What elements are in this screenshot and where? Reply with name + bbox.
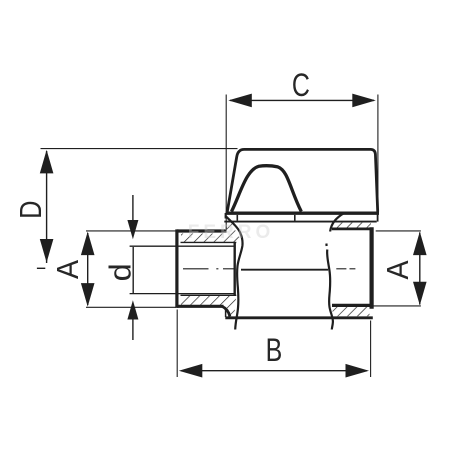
dimension B line [181,370,367,372]
male end left face [175,229,178,308]
dimension D extension line [41,148,238,150]
dimension A right line [419,233,421,305]
dimension C arrowheads [228,94,252,108]
left break wavy line [225,216,242,330]
female top hatch band [333,223,372,229]
stem band right edge [377,213,379,222]
dimension d bottom arrow [132,319,134,341]
svg-text:C: C [292,68,310,104]
centerline tick at D [37,267,45,269]
dimension D arrowheads [40,150,54,174]
left skirt curve [222,306,230,316]
svg-text:B: B [266,333,283,369]
body left shoulder hatch [181,223,242,244]
body left lower shoulder hatch [181,295,236,316]
body seam line [241,269,328,271]
svg-text:A: A [381,260,415,279]
female right face [370,227,374,308]
dimension B extension lines [176,310,178,378]
stem band divider left [236,215,238,221]
left skirt edge [225,310,227,318]
female bore top line [332,227,373,230]
stem band bottom / body top line [224,221,376,223]
body bottom line [225,316,372,319]
bore end wall [233,242,235,295]
dimension B arrowheads [179,364,203,378]
handle thumb bell curve [232,166,302,212]
male thread root bottom line [181,294,237,296]
dimension A left arrowheads [81,232,95,256]
female bore bottom line [332,304,373,307]
right break wavy dot [325,244,327,247]
dimension A left extension lines [86,230,176,232]
female bottom hatch band [333,307,370,316]
dimension A left line [87,233,89,305]
handle outline [227,149,377,211]
dimension d line [132,247,134,293]
male bore bottom line / d extension [130,293,235,295]
dimension A right extension lines [376,230,421,232]
male end outer bottom line [177,305,224,308]
stem band left edge [224,213,226,219]
dimension A right arrowheads [413,232,427,256]
svg-text:D: D [14,201,49,219]
centerline [183,268,355,270]
male bore top line / d extension [130,245,235,247]
right break wavy line [330,213,344,231]
svg-text:d: d [102,263,137,281]
svg-text:A: A [51,260,85,279]
dimension d top arrow [132,195,134,221]
handle bottom edge [226,212,379,215]
stem band divider right [294,215,296,221]
right break wavy lower [327,250,333,330]
dimension C extension lines [225,95,227,230]
male end outer top line [177,229,227,232]
male thread root top line [181,241,237,243]
svg-text:FERRO: FERRO [188,222,275,243]
dimension C line [230,99,374,101]
dimension D line [46,151,48,263]
